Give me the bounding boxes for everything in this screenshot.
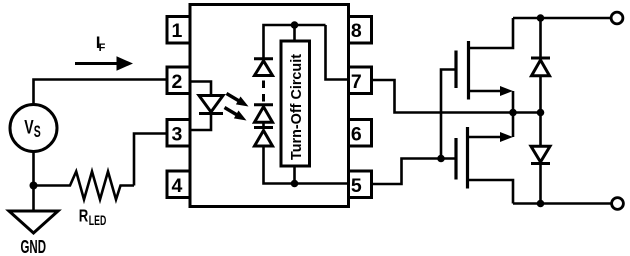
svg-text:4: 4: [172, 175, 183, 197]
wire pin 7 to source rail: [372, 80, 541, 113]
pin 1: [167, 17, 190, 44]
wire pin 2 to LED anode: [190, 82, 211, 96]
terminal top: [611, 12, 623, 24]
wire stack top rail: [264, 25, 326, 59]
svg-text:LED: LED: [89, 212, 107, 228]
wire RLED to pin 3: [134, 134, 168, 186]
label VS: [24, 117, 41, 141]
pin 4: [167, 171, 190, 198]
pin 6: [349, 120, 372, 147]
svg-text:2: 2: [172, 71, 183, 93]
wire VS bottom to ground: [32, 152, 35, 213]
ground: [9, 211, 58, 233]
svg-text:S: S: [34, 123, 41, 141]
terminal bottom: [612, 198, 624, 210]
node dot bottom rail diode: [537, 200, 545, 208]
node dot mid diode junction: [537, 109, 545, 117]
node dot gate junction: [437, 155, 445, 163]
wire top rail to pin 7: [326, 25, 349, 80]
wire stack bottom rail to pin 5: [264, 146, 349, 184]
dashed segment between PD1 and PD2: [262, 81, 265, 104]
label IF: [96, 33, 106, 54]
bottom output rail: [513, 202, 611, 205]
diode D3 lower body diode: [531, 113, 550, 204]
resistor RLED: [34, 172, 135, 200]
transistor Q2 lower MOSFET: [456, 113, 513, 204]
LED emission arrow 2: [225, 108, 247, 121]
svg-text:6: 6: [351, 123, 362, 145]
top output rail: [513, 17, 611, 20]
pin 8: [349, 17, 372, 44]
wire VS top to pin 2: [34, 80, 168, 105]
voltage source VS: [10, 105, 57, 152]
pin 5: [349, 171, 372, 198]
LED emission arrow 1: [227, 94, 249, 107]
label GND: [21, 236, 47, 256]
node dot top rail diode: [537, 14, 545, 22]
svg-text:Turn-Off Circuit: Turn-Off Circuit: [288, 54, 305, 160]
wire gate junction to upper gate: [441, 70, 456, 159]
wire LED cathode to pin 3: [190, 114, 211, 131]
diode D2 upper body diode: [531, 18, 550, 113]
IC package body: [190, 5, 349, 207]
svg-text:8: 8: [351, 20, 362, 42]
svg-text:1: 1: [172, 20, 183, 42]
stub to turn-off box top: [293, 25, 296, 41]
svg-text:GND: GND: [21, 236, 47, 256]
pin 3: [167, 120, 190, 147]
svg-text:5: 5: [351, 175, 362, 197]
LED D1: [199, 96, 223, 114]
label RLED: [79, 205, 107, 228]
svg-text:R: R: [79, 205, 89, 225]
photodiode PD3: [254, 128, 273, 147]
node dot sources: [509, 109, 517, 117]
pin 2: [167, 67, 190, 94]
current arrow IF: [75, 56, 133, 70]
node dot top rail: [291, 21, 299, 29]
wire pin 5 to gates: [372, 159, 457, 185]
transistor Q1 upper MOSFET: [456, 18, 513, 113]
photodiode PD2: [254, 105, 273, 123]
svg-text:F: F: [99, 42, 106, 54]
stub turn-off box bottom: [293, 166, 296, 184]
pin 7: [349, 67, 372, 94]
photodiode PD1: [254, 59, 273, 76]
svg-text:3: 3: [172, 123, 183, 145]
node dot bottom rail: [291, 180, 299, 188]
turn-off circuit box U1: [281, 41, 310, 166]
svg-text:7: 7: [351, 71, 362, 93]
svg-text:V: V: [24, 117, 33, 139]
node junction dot at VS/RLED: [30, 182, 38, 190]
wire PD2 to PD3: [262, 122, 265, 127]
